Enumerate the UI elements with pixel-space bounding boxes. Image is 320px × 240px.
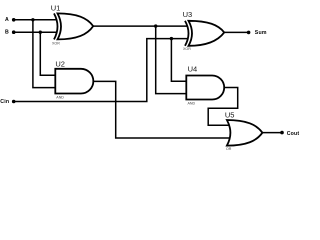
wire U2 output to U5 lower input — [93, 81, 229, 138]
svg-text:Cin: Cin — [0, 99, 9, 105]
svg-text:U3: U3 — [183, 10, 193, 19]
wire U4 output to U5 upper input — [208, 88, 238, 126]
wire B tap to U2 upper input — [40, 32, 55, 75]
svg-text:U2: U2 — [55, 60, 65, 69]
junction on wire A — [31, 18, 34, 21]
wire Cin to U3 lower input — [14, 39, 188, 102]
wire A input — [14, 19, 57, 21]
transistor U2 AND gate body — [55, 69, 93, 94]
svg-text:XOR: XOR — [183, 47, 191, 51]
op-amp U1 XOR gate body — [54, 13, 93, 39]
svg-text:OR: OR — [226, 147, 232, 151]
svg-text:U1: U1 — [51, 3, 61, 12]
node Sum terminal dot — [247, 31, 251, 35]
svg-text:Sum: Sum — [255, 30, 267, 36]
junction on Cin-U3 wire — [170, 37, 173, 40]
svg-text:B: B — [5, 30, 9, 36]
svg-text:Cout: Cout — [287, 131, 300, 137]
node B terminal dot — [12, 30, 16, 34]
op-amp U3 XOR gate body — [185, 21, 224, 46]
wire B input — [14, 31, 57, 33]
transistor U4 AND gate body — [186, 76, 224, 100]
wire U5 output to Cout — [262, 132, 282, 134]
node Cin terminal dot — [12, 100, 16, 104]
wire U1-out tap to U4 lower input — [156, 26, 187, 94]
wire A tap to U2 lower input — [33, 20, 55, 88]
diode U5 OR gate body — [227, 120, 263, 146]
node A terminal dot — [12, 18, 16, 22]
svg-text:A: A — [5, 17, 9, 23]
wire U1 output to U3 upper input — [93, 25, 188, 27]
wire Cin tap to U4 upper input — [171, 39, 186, 82]
node Cout terminal dot — [280, 131, 284, 135]
svg-text:AND: AND — [56, 95, 64, 99]
junction on U1 output wire — [154, 24, 157, 27]
svg-text:XOR: XOR — [52, 42, 60, 46]
junction on wire B — [39, 31, 42, 34]
svg-text:AND: AND — [188, 101, 196, 105]
wire U3 output to Sum — [224, 31, 248, 33]
svg-text:U5: U5 — [225, 110, 235, 119]
svg-text:U4: U4 — [188, 65, 198, 74]
